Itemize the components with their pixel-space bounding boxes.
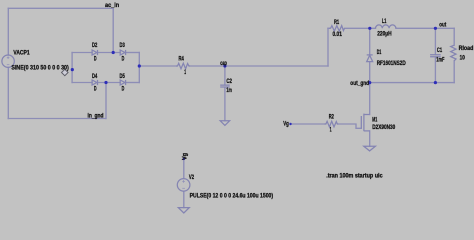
- diode D1: [367, 54, 373, 56]
- capacitor C2: [220, 85, 230, 87]
- svg-text:R2: R2: [329, 114, 335, 121]
- node in_gnd bridge bottom junction: [104, 81, 107, 84]
- wire M1 drain: [369, 83, 371, 115]
- wire VACP1 bottom down: [7, 67, 9, 118]
- resistor R1: [329, 26, 344, 32]
- wire bridge left vertical: [71, 53, 73, 83]
- wire D1 bottom lead: [369, 62, 371, 83]
- wire D1 top lead: [369, 28, 371, 55]
- wire ac_in vertical down: [112, 8, 114, 52]
- wire main rail to R4: [139, 65, 176, 67]
- node Vg wire end: [289, 123, 291, 125]
- wire V2 top lead: [183, 159, 185, 179]
- svg-text:Vg: Vg: [181, 153, 188, 160]
- svg-text:R1: R1: [334, 19, 340, 26]
- svg-text:1: 1: [184, 69, 186, 76]
- ground after V2: [178, 208, 189, 213]
- svg-text:R4: R4: [179, 56, 185, 63]
- wire M1 source to ground: [369, 131, 371, 146]
- svg-text:out: out: [439, 22, 446, 29]
- node out junction: [434, 27, 437, 30]
- transistor M1: [364, 114, 370, 116]
- wire C1 top lead: [434, 28, 436, 54]
- wire out_gnd rail: [370, 82, 455, 84]
- svg-text:out_gnd: out_gnd: [350, 80, 369, 87]
- svg-text:RF1601NS2D: RF1601NS2D: [377, 60, 406, 67]
- svg-text:1mF: 1mF: [436, 56, 444, 63]
- ground after C2: [220, 121, 229, 126]
- wire Rload bottom down: [453, 61, 455, 83]
- svg-text:in_gnd: in_gnd: [88, 112, 104, 119]
- svg-text:D5: D5: [120, 73, 126, 80]
- wire R2 to gate: [338, 124, 361, 128]
- svg-text:Rload: Rload: [459, 45, 474, 52]
- wire corner up: [327, 28, 329, 66]
- wire out corner down to Rload: [453, 28, 455, 45]
- wire bridge right vertical: [138, 53, 140, 83]
- svg-text:D2X90N30: D2X90N30: [372, 124, 395, 131]
- wire up to bridge bottom mid: [105, 83, 107, 119]
- svg-text:L1: L1: [382, 18, 387, 25]
- capacitor C1: [430, 55, 441, 57]
- node ac_in bridge top junction: [112, 51, 115, 54]
- node bridge right junction: [138, 64, 141, 67]
- wire left vertical to VACP1 top: [7, 8, 9, 55]
- wire C2 to ground: [224, 87, 226, 121]
- wire L1 to out: [396, 27, 454, 29]
- svg-text:1m: 1m: [226, 87, 232, 94]
- svg-text:M1: M1: [372, 117, 377, 124]
- wire to R1: [328, 27, 329, 29]
- diode D3: [120, 50, 125, 55]
- node cap junction: [223, 64, 226, 67]
- svg-text:ac_in: ac_in: [105, 2, 119, 9]
- svg-text:cap: cap: [220, 60, 227, 67]
- inductor L1: [376, 25, 396, 28]
- svg-text:1: 1: [330, 127, 332, 134]
- svg-text:D2: D2: [92, 42, 98, 49]
- voltage source VACP1: [2, 55, 14, 67]
- resistor Rload: [451, 45, 456, 61]
- svg-text:V2: V2: [189, 174, 195, 181]
- wire bridge top row: [72, 52, 92, 54]
- diode D4: [92, 80, 97, 85]
- wire bottom horizontal in_gnd: [8, 118, 106, 120]
- svg-text:D1: D1: [377, 49, 382, 56]
- svg-text:D: D: [122, 85, 125, 92]
- resistor R2: [325, 121, 339, 127]
- svg-text:D: D: [122, 55, 125, 62]
- svg-text:D3: D3: [120, 42, 126, 49]
- wire ac_in top horizontal: [8, 7, 113, 9]
- svg-text:VACP1: VACP1: [13, 49, 30, 56]
- svg-text:D: D: [94, 55, 97, 62]
- resistor R4: [176, 63, 190, 69]
- ground after M1: [364, 146, 376, 151]
- node C1 bottom junction: [434, 81, 437, 84]
- svg-text:PULSE(0 12 0 0 0 24.6u 100u 15: PULSE(0 12 0 0 0 24.6u 100u 1500): [190, 192, 274, 199]
- svg-text:SINE(0 310 50 0 0 0 30): SINE(0 310 50 0 0 0 30): [11, 64, 68, 71]
- node R1-L1-D1 junction: [368, 27, 371, 30]
- wire cap node down to C2: [224, 66, 226, 85]
- wire bridge bottom row: [72, 82, 92, 84]
- wire C1 bottom lead: [434, 57, 436, 82]
- svg-text:D: D: [94, 85, 97, 92]
- svg-text:10: 10: [460, 54, 466, 61]
- wire R1 to L1: [345, 27, 376, 29]
- svg-text:C2: C2: [226, 78, 232, 85]
- node bridge left junction: [71, 68, 74, 71]
- wire Vg to R2: [291, 123, 325, 125]
- voltage source V2: [177, 179, 190, 192]
- svg-text:220µH: 220µH: [377, 31, 391, 38]
- node V2 wire top end: [183, 158, 185, 160]
- diode D2: [92, 50, 97, 55]
- svg-text:0.01: 0.01: [333, 31, 343, 38]
- svg-text:C1: C1: [437, 47, 443, 54]
- svg-text:.tran 100m startup uic: .tran 100m startup uic: [326, 173, 383, 180]
- node out_gnd junction: [368, 81, 371, 84]
- svg-text:Vg: Vg: [283, 121, 289, 128]
- diode D5: [120, 80, 125, 85]
- svg-text:D4: D4: [92, 73, 98, 80]
- cursor diamond: [62, 69, 69, 75]
- wire R4 to corner: [190, 65, 328, 67]
- wire V2 bottom lead: [183, 191, 185, 207]
